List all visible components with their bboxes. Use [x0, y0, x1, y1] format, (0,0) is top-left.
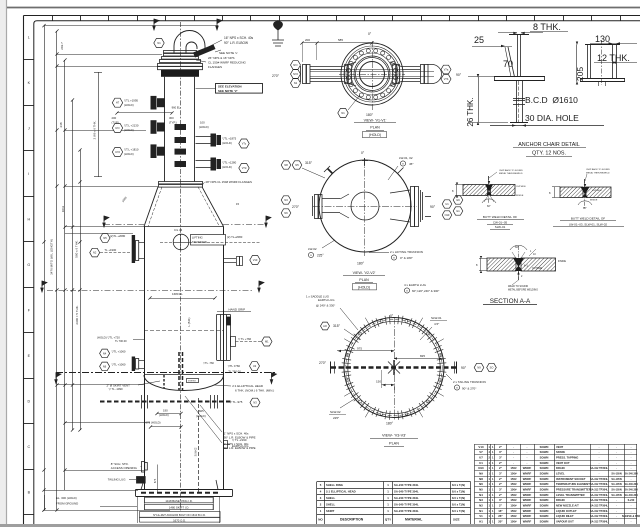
svg-text:PLAN: PLAN — [389, 442, 399, 446]
svg-text:248: 248 — [59, 122, 63, 127]
svg-text:150#: 150# — [510, 509, 517, 513]
svg-text:SA-240 TYPE 304L: SA-240 TYPE 304L — [394, 509, 419, 513]
svg-text:225°: 225° — [317, 254, 324, 258]
svg-text:26": 26" — [498, 514, 503, 518]
svg-text:SA-312 TP304L: SA-312 TP304L — [590, 505, 609, 508]
svg-text:SO/WN: SO/WN — [540, 509, 549, 513]
svg-text:SA-240.304: SA-240.304 — [624, 473, 638, 476]
svg-text:SO/WN: SO/WN — [540, 450, 549, 454]
svg-text:SLW-01: SLW-01 — [495, 225, 506, 229]
svg-text:270°: 270° — [292, 205, 300, 209]
svg-text:90° & 270°: 90° & 270° — [462, 387, 477, 391]
svg-text:DRAIN: DRAIN — [556, 498, 565, 502]
svg-text:INSIDE: INSIDE — [516, 195, 524, 197]
svg-text:U1: U1 — [479, 461, 483, 465]
svg-text:FLANGES: FLANGES — [208, 65, 222, 69]
svg-text:20": 20" — [498, 520, 503, 524]
base dim boxes — [145, 498, 214, 503]
svg-text:▽TL +1060: ▽TL +1060 — [112, 349, 126, 353]
svg-text:SHELL: SHELL — [326, 496, 335, 500]
svg-text:60°: 60° — [487, 205, 491, 208]
svg-text:N8: N8 — [479, 477, 483, 481]
svg-text:SO/WN: SO/WN — [540, 477, 549, 481]
svg-text:675: 675 — [153, 478, 157, 483]
svg-text:270°: 270° — [272, 74, 280, 78]
nozzle V7c right — [196, 136, 211, 138]
svg-text:WNRF: WNRF — [523, 472, 532, 476]
bottom page cut band — [0, 524, 640, 527]
svg-text:N10: N10 — [445, 213, 450, 217]
V1 hexes right — [441, 65, 451, 74]
svg-text:I: I — [28, 172, 29, 176]
V1 right pipe — [390, 62, 442, 86]
svg-text:N1: N1 — [341, 111, 345, 115]
svg-text:(TYP.): (TYP.) — [169, 120, 177, 124]
section flags V2 cut — [41, 281, 47, 292]
svg-text:TRUNNION: TRUNNION — [192, 240, 207, 244]
svg-text:BUTT WELD DETAIL OF: BUTT WELD DETAIL OF — [571, 217, 605, 221]
svg-text:V10: V10 — [253, 258, 258, 262]
svg-text:EARTH LUG: EARTH LUG — [232, 444, 249, 448]
vessel centerline — [180, 22, 182, 512]
svg-text:SO/WN: SO/WN — [540, 514, 549, 518]
svg-text:100: 100 — [200, 121, 205, 125]
wide shell — [144, 227, 146, 386]
svg-text:N5: N5 — [479, 488, 483, 492]
svg-text:PRESSURE TRANSMITTER: PRESSURE TRANSMITTER — [556, 488, 591, 492]
svg-text:N5: N5 — [103, 236, 107, 240]
svg-text:N4: N4 — [103, 351, 107, 355]
svg-text:-: - — [513, 461, 514, 465]
svg-text:B.C.D Ø1610: B.C.D Ø1610 — [525, 95, 578, 105]
svg-text:▽T.L +1810: ▽T.L +1810 — [124, 148, 139, 152]
V1 pipe through flange — [342, 69, 402, 71]
svg-text:N7d: N7d — [293, 72, 298, 76]
svg-text:SA-240 TYPE 304L: SA-240 TYPE 304L — [394, 503, 419, 507]
svg-text:L (841): L (841) — [187, 317, 191, 326]
svg-text:2 x TAILING TRUNNION: 2 x TAILING TRUNNION — [453, 380, 486, 384]
V3 anchor bolt ticks — [437, 370, 446, 373]
svg-text:OUTSIDE: OUTSIDE — [532, 268, 543, 270]
svg-text:SA-312 TP304L: SA-312 TP304L — [590, 483, 609, 486]
svg-text:QTY. 12 NOS.: QTY. 12 NOS. — [532, 151, 566, 157]
V3 crosshair — [394, 318, 396, 420]
svg-text:MATERIAL: MATERIAL — [405, 518, 422, 522]
svg-text:S-240: S-240 — [628, 499, 635, 502]
svg-text:315°: 315° — [333, 324, 341, 328]
svg-text:825: 825 — [199, 409, 204, 413]
V2 right nozzle — [390, 187, 431, 227]
V1 left pipe — [301, 62, 357, 86]
nozzle U7c left — [112, 124, 122, 133]
svg-text:▽TL ±766: ▽TL ±766 — [228, 364, 241, 368]
left lower nozzle — [132, 357, 135, 372]
svg-text:SO/WN: SO/WN — [540, 488, 549, 492]
svg-text:2 x LIFTING TRUNNION: 2 x LIFTING TRUNNION — [390, 250, 423, 254]
svg-text:N2: N2 — [93, 251, 97, 255]
svg-text:-: - — [527, 456, 528, 460]
cone internal dashed — [148, 187, 162, 227]
svg-text:WNRF: WNRF — [523, 488, 532, 492]
svg-text:-: - — [527, 450, 528, 454]
V1 leader N1 — [338, 109, 348, 118]
material table (bottom centre) — [317, 481, 471, 483]
base extension lines down to dim boxes — [137, 496, 139, 523]
svg-text:M1: M1 — [265, 339, 269, 343]
svg-text:180°: 180° — [366, 113, 374, 117]
svg-text:PRESS. TAPPING: PRESS. TAPPING — [556, 456, 578, 460]
section flag V1 top — [153, 19, 159, 30]
base gussets — [141, 480, 218, 490]
svg-text:PLAN: PLAN — [359, 278, 369, 282]
svg-text:150#: 150# — [510, 477, 517, 481]
svg-text:150#: 150# — [510, 466, 517, 470]
svg-text:SA-240.304: SA-240.304 — [624, 483, 638, 486]
svg-text:TEMPERATURE ELEMENT: TEMPERATURE ELEMENT — [556, 482, 590, 486]
svg-text:180°: 180° — [357, 262, 365, 266]
svg-text:8.0 x T.(N): 8.0 x T.(N) — [452, 490, 465, 494]
svg-text:INSTRUMENT SOCKET: INSTRUMENT SOCKET — [556, 477, 586, 481]
svg-text:AO: AO — [323, 324, 327, 328]
svg-text:SO/WN: SO/WN — [540, 498, 549, 502]
svg-text:D: D — [27, 400, 30, 404]
svg-text:-: - — [513, 450, 514, 454]
svg-text:CL 150# WNRF REDUCING: CL 150# WNRF REDUCING — [208, 61, 247, 65]
svg-text:16": 16" — [498, 509, 503, 513]
svg-text:H: H — [27, 218, 30, 222]
svg-text:C/L 43: C/L 43 — [174, 228, 183, 232]
svg-text:0° & 180°: 0° & 180° — [400, 256, 414, 260]
svg-text:150#: 150# — [510, 498, 517, 502]
svg-text:SO/WN: SO/WN — [540, 493, 549, 497]
svg-text:▽TL +1280: ▽TL +1280 — [222, 161, 236, 165]
hex N1 — [154, 39, 164, 48]
svg-text:CHIP BACK TO SOUND: CHIP BACK TO SOUND — [586, 168, 610, 171]
svg-text:150#: 150# — [510, 493, 517, 497]
svg-text:SA-105N: SA-105N — [611, 473, 621, 476]
svg-text:SLW-02: SLW-02 — [330, 410, 341, 414]
V3 tailing trunnion note — [446, 374, 452, 380]
svg-text:(2)TL +2080: (2)TL +2080 — [110, 234, 126, 238]
nozzle U7d left — [112, 148, 122, 157]
svg-text:VENT OUT: VENT OUT — [556, 461, 570, 465]
V2 top tick — [362, 160, 368, 162]
svg-text:(HOLD): (HOLD) — [369, 133, 381, 137]
section flags mid cut — [103, 216, 109, 227]
svg-text:8.0 x T.(N): 8.0 x T.(N) — [452, 483, 465, 487]
svg-text:SEE NOTE 'L': SEE NOTE 'L' — [219, 51, 238, 55]
svg-text:VIEW- 'V1-V1': VIEW- 'V1-V1' — [364, 119, 387, 123]
svg-text:SECTION A-A: SECTION A-A — [490, 298, 531, 305]
svg-text:N1: N1 — [157, 41, 161, 45]
svg-text:90°: 90° — [430, 205, 436, 209]
svg-text:N7c: N7c — [293, 63, 298, 67]
svg-text:1680 EL: 1680 EL — [172, 292, 183, 296]
column bottom flange 28in — [159, 182, 203, 184]
svg-text:N6: N6 — [284, 211, 288, 215]
svg-text:SA-312 TP304L: SA-312 TP304L — [590, 515, 609, 518]
svg-text:1670 O.D.: 1670 O.D. — [173, 519, 186, 523]
svg-text:V10: V10 — [478, 445, 484, 449]
svg-text:90°: 90° — [461, 366, 467, 370]
svg-text:28" NPS CL 150# WNRF FLANGES: 28" NPS CL 150# WNRF FLANGES — [206, 180, 252, 184]
svg-text:H7: H7 — [116, 101, 120, 105]
nozzle schedule table (bottom right) — [475, 444, 638, 446]
svg-text:3476 M/TO (W.L LENGTH): 3476 M/TO (W.L LENGTH) — [50, 239, 54, 275]
V2 lifting trunnion note — [369, 252, 389, 254]
svg-text:8.0 x T.(N): 8.0 x T.(N) — [452, 509, 465, 513]
svg-text:SA-312 TP304L: SA-312 TP304L — [590, 510, 609, 513]
left shell nozzle 8in — [132, 235, 135, 263]
svg-text:LW-01~03, SLW-01, SLW-02: LW-01~03, SLW-01, SLW-02 — [569, 223, 607, 227]
svg-text:190: 190 — [163, 409, 168, 413]
lifting trunnion circle — [173, 234, 189, 250]
svg-text:VENT: VENT — [556, 445, 564, 449]
svg-text:SEE NOTE 'V': SEE NOTE 'V' — [218, 89, 238, 93]
svg-text:SA-312 TP304L: SA-312 TP304L — [590, 499, 609, 502]
svg-text:150: 150 — [376, 380, 381, 384]
svg-text:VAPOUR OUT: VAPOUR OUT — [556, 520, 574, 524]
anchor bolt dashed band — [141, 492, 218, 494]
svg-text:SLW-02: SLW-02 — [195, 447, 198, 456]
svg-text:SO/WN: SO/WN — [540, 456, 549, 460]
V2 45 lug LW-01 — [398, 168, 404, 174]
V3 long spokes — [435, 391, 444, 396]
svg-text:QTY: QTY — [385, 518, 391, 522]
svg-text:60°: 60° — [583, 207, 587, 210]
svg-text:675 (HOLD): 675 (HOLD) — [146, 421, 161, 425]
skirt vent pipe — [163, 375, 165, 388]
nozzle H7 left upper — [112, 98, 122, 107]
svg-text:150#: 150# — [510, 482, 517, 486]
svg-text:SO/WN: SO/WN — [540, 466, 549, 470]
V2 left nozzle — [313, 194, 350, 219]
svg-text:WNRF: WNRF — [523, 504, 532, 508]
svg-text:WNRF: WNRF — [523, 466, 532, 470]
svg-text:VORTEX: VORTEX — [188, 381, 196, 383]
svg-text:J: J — [28, 127, 30, 131]
anchor chair detail left view — [494, 34, 545, 123]
dimension extension lines — [57, 54, 162, 56]
svg-text:LEVEL: LEVEL — [556, 472, 565, 476]
svg-text:150#: 150# — [510, 504, 517, 508]
svg-text:(HOLD): (HOLD) — [159, 413, 169, 417]
svg-text:▽TL +1995: ▽TL +1995 — [124, 98, 138, 102]
svg-text:SO/WN: SO/WN — [540, 520, 549, 524]
svg-text:TL +1900: TL +1900 — [104, 248, 116, 252]
svg-text:-: - — [513, 445, 514, 449]
svg-text:N°12+M27 ANCHOR BOLT ON 1610 B: N°12+M27 ANCHOR BOLT ON 1610 B.C.D. — [153, 513, 206, 517]
svg-text:45°: 45° — [409, 162, 414, 166]
V3 dim 150 — [382, 384, 395, 386]
internal pipe flanges in column — [175, 124, 187, 130]
svg-text:METAL BEFORE WELDING: METAL BEFORE WELDING — [508, 289, 538, 292]
svg-text:1011: 1011 — [61, 205, 65, 212]
svg-text:OUTSIDE: OUTSIDE — [516, 186, 526, 188]
675 rotated dim — [157, 465, 159, 493]
page top edge line — [7, 7, 640, 9]
V3 center mark — [388, 360, 400, 375]
svg-text:(HOLD) ▽TL +720: (HOLD) ▽TL +720 — [97, 336, 120, 340]
svg-text:SA-312 TP304L: SA-312 TP304L — [590, 478, 609, 481]
svg-text:DRAIN: DRAIN — [556, 466, 565, 470]
svg-text:N2: N2 — [479, 504, 483, 508]
svg-text:G6: G6 — [456, 198, 460, 202]
svg-text:6 THK. (NOM.) 6 THK. (MIN.): 6 THK. (NOM.) 6 THK. (MIN.) — [235, 388, 274, 392]
svg-text:METAL THEN REWELD: METAL THEN REWELD — [499, 172, 523, 175]
svg-text:U7: U7 — [479, 456, 483, 460]
svg-text:25: 25 — [474, 35, 484, 45]
svg-text:150#: 150# — [510, 472, 517, 476]
narrow column shell — [164, 77, 166, 182]
V3 dim 825 — [394, 358, 443, 360]
svg-text:N6: N6 — [479, 482, 483, 486]
top border zone ticks — [52, 16, 54, 21]
svg-text:16" NPS x SCH. 40s: 16" NPS x SCH. 40s — [224, 36, 254, 40]
page left edge shading — [0, 0, 6, 527]
svg-text:TAILING LUG: TAILING LUG — [108, 477, 127, 481]
svg-text:(HOLD): (HOLD) — [124, 152, 134, 156]
svg-text:LIQUID INLET: LIQUID INLET — [556, 514, 574, 518]
svg-text:▽ TL -1090: ▽ TL -1090 — [109, 387, 123, 391]
svg-text:150#: 150# — [510, 488, 517, 492]
svg-text:8.0 x T.(N): 8.0 x T.(N) — [452, 496, 465, 500]
svg-text:(HOLD): (HOLD) — [358, 286, 370, 290]
svg-text:▽T.L +2130: ▽T.L +2130 — [124, 124, 139, 128]
V3 mid dashed circle — [346, 319, 442, 415]
svg-text:U7c: U7c — [115, 126, 120, 130]
svg-text:(2) TL+2080: (2) TL+2080 — [227, 235, 243, 239]
VIEW V1-V1 flange plan — [341, 43, 403, 105]
V3 dim 975 — [337, 350, 394, 352]
svg-text:SA-240.304: SA-240.304 — [624, 494, 638, 497]
svg-text:SA-105N: SA-105N — [611, 483, 621, 486]
svg-text:2300 ± 5 THK.: 2300 ± 5 THK. — [75, 305, 79, 324]
svg-text:WNRF: WNRF — [523, 482, 532, 486]
svg-text:OUTSIDE: OUTSIDE — [592, 190, 602, 192]
svg-text:4.5°: 4.5° — [434, 322, 440, 326]
svg-text:PLAN: PLAN — [370, 126, 380, 130]
svg-text:U7d: U7d — [115, 150, 120, 154]
svg-text:EARTH LUG: EARTH LUG — [318, 298, 335, 302]
svg-text:V7c: V7c — [242, 141, 247, 145]
V2 315 lug — [328, 169, 333, 174]
svg-text:SA-105N: SA-105N — [611, 494, 621, 497]
anchor chair detail right view — [580, 40, 625, 86]
svg-text:LIFTING: LIFTING — [192, 235, 203, 239]
svg-text:WNRF: WNRF — [523, 477, 532, 481]
top reducing flange stack — [158, 51, 203, 70]
shell internal dashes — [144, 330, 224, 332]
svg-text:SLW-01: SLW-01 — [431, 316, 442, 320]
svg-text:12 THK.: 12 THK. — [597, 53, 630, 63]
svg-text:▽ TL +766: ▽ TL +766 — [238, 337, 252, 341]
svg-text:N8: N8 — [284, 163, 288, 167]
svg-text:825: 825 — [420, 354, 425, 358]
svg-text:V7d: V7d — [242, 166, 247, 170]
svg-text:SA-312 TP304L: SA-312 TP304L — [590, 494, 609, 497]
svg-text:SIZE: SIZE — [453, 518, 460, 522]
svg-text:CW-01~05: CW-01~05 — [493, 221, 508, 225]
svg-text:(HOLD): (HOLD) — [124, 103, 134, 107]
svg-text:V7: V7 — [479, 450, 483, 454]
svg-text:SKIRT: SKIRT — [326, 509, 335, 513]
svg-text:60°,120°,240° & 300°: 60°,120°,240° & 300° — [412, 289, 439, 293]
drawing frame outer border — [24, 15, 640, 17]
svg-text:SA-105N: SA-105N — [611, 489, 621, 492]
svg-text:8 THK.: 8 THK. — [533, 22, 561, 32]
column width bracket dim — [98, 72, 100, 177]
svg-text:-: - — [527, 445, 528, 449]
svg-text:-: - — [527, 461, 528, 465]
svg-text:315°: 315° — [305, 161, 313, 165]
svg-text:U2: U2 — [253, 364, 257, 368]
svg-text:N3: N3 — [253, 400, 257, 404]
svg-text:200: 200 — [305, 38, 310, 42]
svg-text:SHELL RING: SHELL RING — [326, 483, 343, 487]
svg-text:BUTT WELD DETAIL OF: BUTT WELD DETAIL OF — [483, 215, 517, 219]
svg-text:N3: N3 — [284, 198, 288, 202]
V1 dims — [302, 42, 372, 44]
V2 crosshair — [313, 206, 417, 208]
svg-text:70: 70 — [503, 59, 513, 69]
svg-text:WNRF: WNRF — [523, 498, 532, 502]
svg-text:▽TL +1875: ▽TL +1875 — [222, 137, 236, 141]
svg-text:CHIP BACK TO SOUND: CHIP BACK TO SOUND — [499, 169, 523, 172]
svg-text:2 W6 x 6 THK.: 2 W6 x 6 THK. — [93, 120, 97, 139]
svg-text:EL. 300 (HOLD): EL. 300 (HOLD) — [56, 496, 77, 500]
svg-text:U1: U1 — [445, 202, 449, 206]
svg-text:SA-312 TP304L: SA-312 TP304L — [590, 521, 609, 524]
svg-text:@ 240° & 330°: @ 240° & 330° — [316, 304, 335, 308]
svg-text:150#: 150# — [510, 520, 517, 524]
section cut line V3 — [56, 372, 277, 374]
svg-text:HAND GRIP: HAND GRIP — [229, 308, 246, 312]
svg-text:V7b: V7b — [444, 77, 449, 81]
svg-text:SHELL: SHELL — [326, 503, 335, 507]
left lower hexes N4 N6 — [100, 349, 110, 358]
svg-text:INSIDE: INSIDE — [590, 200, 598, 202]
svg-text:SA-240.304: SA-240.304 — [624, 489, 638, 492]
svg-text:SLEEVE & PAD: SLEEVE & PAD — [622, 515, 640, 518]
V1 hexes left — [291, 61, 301, 70]
svg-text:975: 975 — [357, 347, 362, 351]
anchor symbol top — [272, 20, 284, 46]
svg-text:SA-312 TP304L: SA-312 TP304L — [590, 489, 609, 492]
internal downcomer pipe — [178, 352, 180, 391]
svg-text:SA-240 TYPE 304L: SA-240 TYPE 304L — [394, 490, 419, 494]
svg-text:N3: N3 — [479, 498, 483, 502]
svg-text:SA-240 TYPE 304L: SA-240 TYPE 304L — [394, 483, 419, 487]
svg-text:▽ TL -975: ▽ TL -975 — [230, 400, 243, 404]
elliptical head — [144, 374, 224, 376]
svg-text:130: 130 — [595, 34, 610, 44]
svg-text:ANCHOR CHAIR DETAIL: ANCHOR CHAIR DETAIL — [518, 142, 580, 148]
svg-text:585: 585 — [338, 38, 343, 42]
svg-text:WNRF: WNRF — [523, 509, 532, 513]
svg-text:N6: N6 — [103, 364, 107, 368]
svg-text:N5: N5 — [295, 163, 299, 167]
svg-text:SPARE: SPARE — [556, 450, 565, 454]
svg-text:DESCRIPTION: DESCRIPTION — [340, 518, 364, 522]
svg-text:TL 700.00: TL 700.00 — [115, 339, 127, 343]
svg-text:SO/WN: SO/WN — [540, 482, 549, 486]
svg-text:C: C — [27, 445, 30, 449]
svg-text:N1: N1 — [479, 509, 483, 513]
svg-text:VIEW- 'V2-V2': VIEW- 'V2-V2' — [353, 271, 376, 275]
VIEW V2-V2 head plan — [319, 160, 411, 252]
V1 bolt holes — [393, 76, 397, 80]
